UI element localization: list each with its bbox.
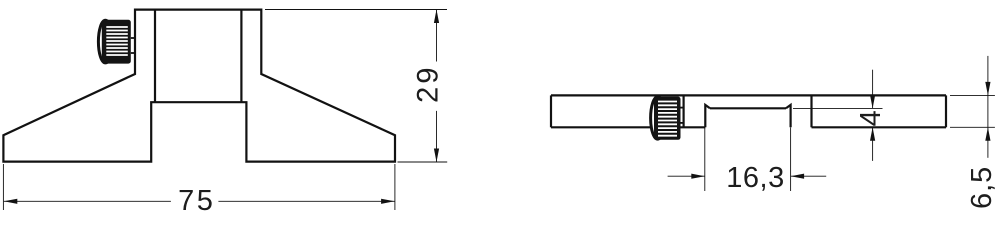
svg-text:6,5: 6,5 xyxy=(966,166,998,209)
extension line right xyxy=(790,127,792,191)
arrow right pointing left xyxy=(791,174,805,179)
svg-text:16,3: 16,3 xyxy=(726,162,784,194)
arrow left xyxy=(4,199,17,204)
extension line left xyxy=(704,127,706,191)
bracket outline xyxy=(3,10,395,162)
extension line right xyxy=(394,164,396,210)
svg-text:29: 29 xyxy=(413,65,445,103)
notch ceiling xyxy=(710,107,786,109)
bar right end xyxy=(945,95,947,127)
arrow bottom xyxy=(434,149,439,163)
dimension line left segment xyxy=(668,175,705,177)
arrow down xyxy=(870,95,875,109)
dimension line xyxy=(987,56,989,158)
dimension line 75 xyxy=(4,200,171,202)
bar top edge xyxy=(551,94,946,96)
screw knurl stripes xyxy=(658,102,677,136)
inner neck wall left xyxy=(154,10,156,103)
arrow top xyxy=(434,10,439,24)
notch left wall xyxy=(705,105,710,127)
bar left end xyxy=(550,95,552,127)
extension line left xyxy=(2,164,4,210)
arrow right xyxy=(381,199,395,204)
screw knurl stripes xyxy=(106,27,128,55)
dimension line above xyxy=(872,70,874,109)
arrow up xyxy=(870,127,875,141)
screw end ellipse xyxy=(98,20,112,63)
svg-text:75: 75 xyxy=(178,185,215,212)
arrow down xyxy=(985,82,990,96)
screw head body xyxy=(102,20,131,64)
screw stem top line xyxy=(131,37,136,39)
notch right wall xyxy=(786,105,791,127)
screw end ellipse xyxy=(651,97,665,139)
screw stem bottom line xyxy=(131,52,136,54)
dimension line below xyxy=(872,127,874,161)
arrow left pointing right xyxy=(691,174,705,179)
screw stem bottom line xyxy=(680,122,684,124)
dimension line 29 xyxy=(436,10,438,62)
screw head body xyxy=(654,97,681,140)
bar bottom right segment xyxy=(812,126,947,128)
extension line bottom xyxy=(398,161,448,163)
bar bottom left segment xyxy=(551,126,705,128)
extension line bottom xyxy=(950,126,995,128)
extension line top xyxy=(950,94,995,96)
divider vertical xyxy=(810,95,812,127)
thin edge line (4 dim extension) xyxy=(793,107,883,109)
screw stem top line xyxy=(680,107,684,109)
dimension line right segment xyxy=(791,175,827,177)
screw hole boss edge xyxy=(682,95,684,127)
extension line top xyxy=(265,9,447,11)
arrow up xyxy=(985,127,990,141)
inner neck wall right xyxy=(240,10,242,103)
svg-text:4: 4 xyxy=(855,110,887,126)
